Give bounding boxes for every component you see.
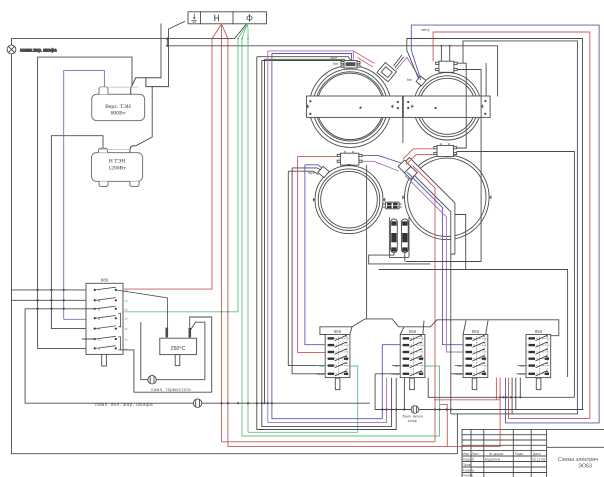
svg-text:ЭО63: ЭО63 xyxy=(578,464,592,470)
wire capsule bottom xyxy=(369,215,568,378)
junction dots 880 feeds xyxy=(36,289,52,310)
wire black pair burner1 top xyxy=(257,57,396,430)
svg-text:Н ТЭН: Н ТЭН xyxy=(109,159,126,165)
svg-text:черн: черн xyxy=(393,372,400,376)
wire neutral bus left vertical xyxy=(11,55,13,454)
svg-text:Верх. ТЭН: Верх. ТЭН xyxy=(105,104,131,110)
svg-text:черн: черн xyxy=(518,372,525,376)
heater lower TEN 1200W xyxy=(92,146,143,187)
svg-text:3а: 3а xyxy=(125,338,129,342)
burner3 terminal block xyxy=(337,151,362,165)
wire burner3 black xyxy=(292,168,325,374)
wire violet burner1 xyxy=(268,51,387,423)
wire lamp to switch row7 xyxy=(12,290,95,300)
svg-text:1в: 1в xyxy=(125,288,129,292)
red phase fan from N xyxy=(124,24,447,447)
svg-text:черн: черн xyxy=(456,372,463,376)
wire burner3 red xyxy=(298,157,338,353)
label F xyxy=(247,16,252,20)
lamp HL2 thermostat xyxy=(141,322,205,384)
switch SB1 856 xyxy=(325,335,350,390)
capsule igniter assembly xyxy=(383,202,409,257)
wire burner4 violet out xyxy=(405,176,463,353)
svg-text:2в: 2в xyxy=(125,307,129,311)
lamp HL4 burner-on xyxy=(375,374,583,414)
svg-text:856: 856 xyxy=(409,329,417,334)
label N xyxy=(215,15,219,21)
wire block2 chern drop xyxy=(403,378,405,410)
wire row7 to thermostat xyxy=(116,290,168,328)
burner1 circles xyxy=(309,65,391,147)
switch SB3 856 xyxy=(463,335,488,390)
wire black right A xyxy=(407,39,583,410)
wire TEN series link xyxy=(136,87,152,146)
svg-text:бел.: бел. xyxy=(407,78,413,82)
wire burner4 blue out xyxy=(407,172,463,345)
svg-text:конф.: конф. xyxy=(408,419,418,423)
svg-text:Подп.: Подп. xyxy=(515,452,524,456)
svg-text:ламп. вкл. жар. шкафа: ламп. вкл. жар. шкафа xyxy=(95,402,153,407)
svg-text:3в: 3в xyxy=(125,327,129,331)
title block table xyxy=(462,429,604,477)
switch SB4 856 xyxy=(526,335,551,390)
burner4 circles xyxy=(405,155,490,240)
svg-text:16.12.08: 16.12.08 xyxy=(532,457,545,461)
capsule left xyxy=(391,219,398,252)
thermostat 250C xyxy=(160,322,205,380)
wire burner3 blue xyxy=(305,165,325,345)
burner1 rotated block xyxy=(377,63,396,82)
burner2 rim pin xyxy=(416,76,426,86)
burner4 channel xyxy=(403,158,455,255)
svg-text:856: 856 xyxy=(334,329,342,334)
svg-text:ламп. термостата: ламп. термостата xyxy=(151,387,191,392)
wire dots line xyxy=(428,378,574,398)
wire burner2 top pins to bus xyxy=(441,46,449,59)
red wires to block4 xyxy=(496,378,500,400)
burner2 circles xyxy=(414,73,481,140)
svg-text:1200Вт: 1200Вт xyxy=(108,166,126,172)
burner2 terminal block xyxy=(436,59,458,72)
heater upper TEN 800W xyxy=(92,78,169,121)
junction dots top xyxy=(166,38,451,47)
wire burner4 red feed xyxy=(403,149,435,442)
svg-text:Схема электрич: Схема электрич xyxy=(558,457,598,463)
wire bottom frame xyxy=(12,414,604,454)
wire blue burner1 xyxy=(272,54,400,419)
ground symbol in XT1 xyxy=(192,14,197,22)
svg-text:Т.контр.: Т.контр. xyxy=(463,468,475,472)
switch S1 contacts xyxy=(96,287,121,350)
wire red wrap table xyxy=(434,400,500,447)
wire bundle rotated block to burner2 rim xyxy=(394,55,423,83)
svg-text:Пров.: Пров. xyxy=(463,463,472,467)
bar divider xyxy=(402,117,404,143)
svg-text:880: 880 xyxy=(101,278,109,283)
svg-text:Лист: Лист xyxy=(472,452,480,456)
wire blue TEN xyxy=(64,70,105,319)
green phase fan from F xyxy=(124,24,440,436)
switch SB3 contacts xyxy=(465,336,487,376)
mounting bar plates xyxy=(307,96,491,117)
burner3 rim block xyxy=(318,166,329,177)
svg-text:№ докум.: № докум. xyxy=(489,452,504,456)
wire red diag to rotated block xyxy=(354,51,375,67)
switch S1 880 block xyxy=(86,283,123,366)
burner1 terminal block xyxy=(341,61,360,69)
wire red top right xyxy=(433,32,590,418)
switch SB4 contacts xyxy=(528,336,550,376)
burner4 terminal block xyxy=(434,143,457,156)
switch SB2 contacts xyxy=(402,336,424,376)
wire burner3 black second xyxy=(288,171,318,365)
wire burner4 top block right to frame xyxy=(457,152,575,398)
svg-text:856: 856 xyxy=(535,329,543,334)
svg-text:2а: 2а xyxy=(125,317,129,321)
svg-text:800Вт: 800Вт xyxy=(111,111,126,117)
labels contact numbers xyxy=(98,288,101,352)
svg-text:Разраб.: Разраб. xyxy=(463,457,475,461)
lamp HL3 oven-on xyxy=(25,309,370,408)
svg-text:Изм: Изм xyxy=(463,452,470,456)
junction dots green fan xyxy=(237,38,249,47)
wire TEN upper loop xyxy=(38,57,132,348)
svg-text:Гконтр.: Гконтр. xyxy=(463,474,475,477)
svg-text:1а: 1а xyxy=(125,299,129,303)
wire N TEN left xyxy=(51,136,103,329)
capsule right xyxy=(402,219,409,252)
wire blue top right xyxy=(411,25,599,423)
wire burner2 right pins xyxy=(457,63,487,261)
wire main bus y46 xyxy=(167,39,497,96)
wire block4 risers xyxy=(519,378,521,398)
switch SB2 856 xyxy=(400,335,425,390)
svg-text:нейтр: нейтр xyxy=(421,28,430,32)
terminal block XT1 xyxy=(188,12,267,24)
svg-text:черн: черн xyxy=(318,372,325,376)
label 880 right pins xyxy=(125,288,129,351)
wire phase line from lamp to terminal F xyxy=(12,24,247,38)
svg-text:4а: 4а xyxy=(125,347,129,351)
burner rim ticks xyxy=(307,64,491,202)
svg-text:Дата: Дата xyxy=(533,452,541,456)
bar rivets xyxy=(309,100,486,115)
wire thermostat enclosure xyxy=(121,317,212,392)
lamp HL1 oven lamp xyxy=(7,39,16,54)
svg-text:лампа жар. шкафа: лампа жар. шкафа xyxy=(20,48,57,53)
junction dots lamp line xyxy=(220,402,452,411)
burner3 circles xyxy=(315,166,383,234)
wire burner4 black out xyxy=(451,254,463,414)
svg-text:Кодоелов: Кодоелов xyxy=(485,457,500,461)
funnel plateau blocks 1-2 xyxy=(320,319,559,336)
wire burner3 right pin down xyxy=(366,165,368,319)
wire ground diagonal from terminal to vertical xyxy=(161,22,185,87)
switch SB1 contacts xyxy=(327,336,349,376)
burner4 rim blocks xyxy=(398,160,417,179)
wire burner3 to burner4 bundle xyxy=(362,155,402,171)
wire black right B xyxy=(451,41,578,414)
svg-text:250°С: 250°С xyxy=(171,346,186,352)
junction dots green cross xyxy=(221,311,229,313)
svg-text:бел.: бел. xyxy=(333,62,339,66)
svg-text:856: 856 xyxy=(472,329,480,334)
title block texts xyxy=(463,452,546,477)
svg-text:черн: черн xyxy=(330,56,337,60)
